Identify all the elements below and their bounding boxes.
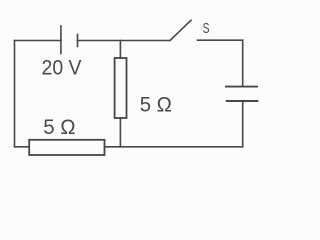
wire: middle branch lower <box>119 118 121 147</box>
battery 20 V: long plate (positive) <box>60 26 62 54</box>
battery 20 V: short plate (negative) <box>77 35 79 47</box>
wire: middle branch upper <box>119 41 121 59</box>
switch S: open blade <box>170 20 191 40</box>
resistor R1 5 ohm (middle): box <box>115 58 127 118</box>
wire: battery to switch pivot <box>78 40 171 42</box>
resistor R2 5 ohm (bottom): box <box>29 140 104 155</box>
capacitor C: top plate <box>226 86 257 88</box>
wire: right vertical upper (to capacitor) <box>242 40 244 86</box>
svg-text:5 Ω: 5 Ω <box>43 115 75 139</box>
wire: right vertical lower (capacitor to bottom) <box>242 101 244 147</box>
wire: bottom left stub into resistor <box>15 146 30 148</box>
capacitor C: bottom plate <box>227 100 258 102</box>
wire: left vertical side <box>14 41 16 147</box>
wire: bottom segment right of resistor <box>105 146 243 148</box>
svg-text:5 Ω: 5 Ω <box>140 92 172 116</box>
wire: top left segment to battery <box>15 40 61 42</box>
wire: switch right contact segment <box>198 39 243 41</box>
svg-text:20 V: 20 V <box>42 56 83 80</box>
svg-text:S: S <box>203 20 210 37</box>
